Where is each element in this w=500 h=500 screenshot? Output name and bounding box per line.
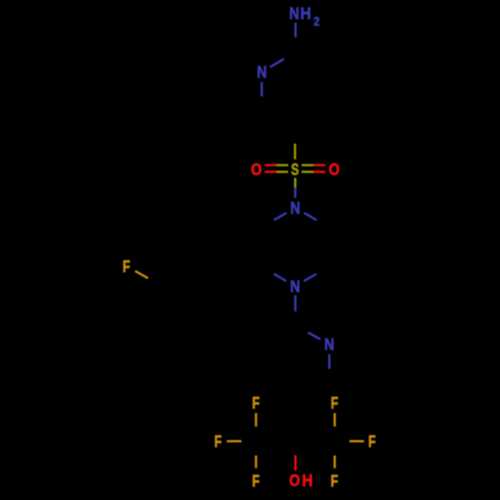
bond CF3R-Fbot (F half) <box>334 456 336 469</box>
bond CF3L-Ftop (F half) <box>255 413 257 427</box>
atom label OH (hydroxyl) <box>289 471 312 490</box>
bond S=O right lower line (S half) <box>302 171 314 173</box>
svg-text:N: N <box>290 277 300 296</box>
bond Nbp-Cbp (N half) <box>328 354 330 369</box>
bond Npip2-C(bot-right) N half <box>304 274 316 281</box>
svg-text:N: N <box>257 63 267 82</box>
svg-text:N: N <box>289 4 299 23</box>
bond Npip2-C(bot-left) N half <box>274 274 286 281</box>
svg-text:S: S <box>291 160 299 179</box>
bond C5-S (S half) <box>294 144 296 160</box>
bond S=O left upper line (S half) <box>276 164 288 166</box>
svg-text:N: N <box>290 199 300 218</box>
bond S=O right upper line (O half) <box>314 164 326 166</box>
svg-text:H: H <box>302 471 313 490</box>
bond S=O right lower line (O half) <box>314 171 326 173</box>
svg-text:H: H <box>300 4 311 23</box>
bond CF3L-Fbot (F half) <box>255 456 257 469</box>
svg-text:O: O <box>329 160 340 179</box>
svg-text:2: 2 <box>314 15 320 29</box>
bond N1-C6 (N half) <box>261 82 263 96</box>
bond NH2-C2 (N half) <box>294 23 296 38</box>
bond S=O left lower line (S half) <box>276 171 288 173</box>
svg-text:F: F <box>331 472 339 491</box>
svg-text:O: O <box>289 471 300 490</box>
svg-text:F: F <box>252 394 260 413</box>
bond S-Npip1 (S half) <box>294 178 296 188</box>
bond CF3L-Fleft (F half) <box>227 440 242 442</box>
bond Ccarbinol-OH (O half) <box>294 455 296 471</box>
bond CF3R-Fright (F half) <box>350 440 365 442</box>
bond S=O left upper line (O half) <box>265 164 277 166</box>
bond Clink-Nbp (N half) <box>308 332 320 339</box>
bond Cphenyl-F (F half) <box>135 271 148 278</box>
svg-text:O: O <box>251 160 262 179</box>
bond S-Npip1 (N half) <box>294 188 296 198</box>
svg-text:F: F <box>214 432 222 451</box>
svg-text:F: F <box>331 394 339 413</box>
bond S=O left lower line (O half) <box>265 171 277 173</box>
atom label NH2 (amine) <box>289 4 320 29</box>
svg-text:F: F <box>368 432 376 451</box>
svg-text:F: F <box>252 472 260 491</box>
bond S=O right upper line (S half) <box>302 164 314 166</box>
svg-text:F: F <box>123 257 131 276</box>
bond Npip1-C(top-right) N half <box>304 213 317 220</box>
svg-text:N: N <box>324 335 334 354</box>
bond N1-C2 (N half) <box>270 59 284 67</box>
bond Npip1-C(top-left) N half <box>274 213 287 220</box>
bond CF3R-Ftop (F half) <box>334 413 336 427</box>
bond Npip2-Clink (N half) <box>294 295 296 311</box>
